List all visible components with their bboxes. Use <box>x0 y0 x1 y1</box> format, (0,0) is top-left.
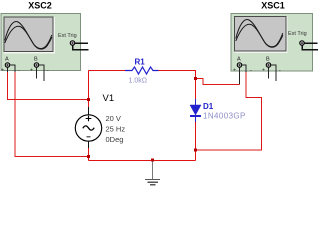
R1 zigzag <box>125 67 159 74</box>
wire: XSC2 A- to V1 bottom node <box>15 72 89 157</box>
svg-text:A: A <box>237 57 241 63</box>
wire: top rail right (R1 to D1 corner) <box>159 71 196 100</box>
wire: XSC1 A- to D1 cathode node <box>196 72 262 150</box>
XSC1 Ext Trig port <box>300 41 305 46</box>
XSC2 channel A port <box>5 63 10 68</box>
svg-text:+: + <box>262 68 265 74</box>
svg-text:A: A <box>5 57 9 63</box>
XSC2 Ext Trig port <box>70 41 75 46</box>
svg-text:XSC2: XSC2 <box>28 1 52 11</box>
XSC2 channel B port <box>34 63 39 68</box>
svg-text:25 Hz: 25 Hz <box>106 125 126 134</box>
XSC1 B plus stub <box>268 68 270 79</box>
junction: XSC1 A- at D1 cathode <box>194 149 197 152</box>
XSC2 A minus stub <box>10 65 15 72</box>
wire: D1 bottom to bottom rail <box>195 122 197 161</box>
junction: A- at V1 bottom <box>87 155 90 158</box>
svg-text:20 V: 20 V <box>106 114 121 123</box>
XSC1 A plus stub <box>239 68 241 85</box>
D1 top lead <box>195 99 197 105</box>
XSC1 B minus stub <box>271 65 276 81</box>
XSC1 A minus stub <box>242 65 246 72</box>
XSC2 screen trace 1 <box>5 22 52 49</box>
XSC1 screen <box>235 17 287 52</box>
XSC2 B minus stub <box>39 65 44 81</box>
svg-text:V1: V1 <box>103 93 115 104</box>
XSC1 Ext Trig minus stub <box>302 46 318 50</box>
oscilloscope U: XSC2 <box>1 1 89 81</box>
V1 sine mark <box>83 126 94 130</box>
XSC2 Ext Trig plus stub <box>75 42 88 44</box>
svg-text:XSC1: XSC1 <box>261 1 285 11</box>
diode D1 <box>190 99 246 122</box>
AC voltage source V1 <box>75 71 125 161</box>
XSC1 Ext Trig plus stub <box>305 42 318 44</box>
ground GND <box>145 161 160 185</box>
svg-text:+: + <box>30 68 33 74</box>
svg-text:1N4003GP: 1N4003GP <box>203 111 246 120</box>
svg-text:R1: R1 <box>135 58 146 67</box>
XSC2 screen <box>4 17 53 52</box>
XSC1 screen trace 2 <box>236 24 283 47</box>
junction: ground node <box>151 158 154 161</box>
resistor R1 <box>125 58 159 85</box>
svg-text:+: + <box>233 68 236 74</box>
V1 top lead <box>88 71 90 108</box>
svg-text:Ext Trig: Ext Trig <box>58 33 77 39</box>
D1 triangle <box>190 105 201 115</box>
wire: XSC2 A+ to V1 top node <box>8 72 89 100</box>
wire: bottom rail <box>89 160 196 162</box>
svg-text:+: + <box>1 68 4 74</box>
svg-text:1.0kΩ: 1.0kΩ <box>129 78 147 85</box>
svg-text:B: B <box>266 57 270 63</box>
ground bar 3 <box>150 184 156 186</box>
XSC1 channel A port <box>237 63 242 68</box>
oscilloscope U: XSC1 <box>231 1 318 85</box>
XSC1 channel B port <box>266 63 271 68</box>
XSC1 screen trace 1 <box>236 20 283 47</box>
V1 circle <box>75 115 101 141</box>
XSC2 body <box>1 14 81 71</box>
svg-text:D1: D1 <box>203 102 214 111</box>
ground lead <box>152 161 154 180</box>
XSC2 A plus stub <box>7 68 9 73</box>
junction: XSC1 A+ at D1 anode <box>194 77 197 80</box>
D1 bottom lead <box>195 116 197 122</box>
XSC2 Ext Trig minus stub <box>73 46 89 50</box>
svg-text:B: B <box>34 57 38 63</box>
XSC2 screen trace 2 <box>5 26 52 49</box>
V1 bottom lead <box>88 141 90 149</box>
XSC1 body <box>231 14 313 72</box>
svg-text:0Deg: 0Deg <box>106 135 124 144</box>
wire: XSC1 A+ to D1 anode node <box>196 79 240 85</box>
V1 minus mark <box>86 136 90 138</box>
V1 plus mark <box>86 116 92 122</box>
junction: A+ at V1 top <box>87 98 90 101</box>
svg-text:Ext Trig: Ext Trig <box>288 31 307 37</box>
wire: top rail left (V1 top to R1) <box>89 70 126 72</box>
ground bar 1 <box>145 179 160 181</box>
XSC2 B plus stub <box>36 68 38 79</box>
D1 cathode bar <box>190 115 201 117</box>
ground bar 2 <box>147 181 158 183</box>
